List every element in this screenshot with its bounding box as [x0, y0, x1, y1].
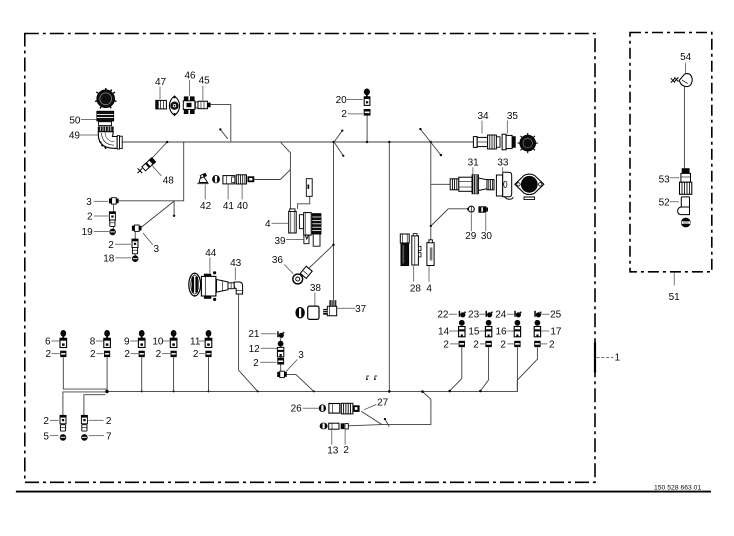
svg-text:11: 11: [190, 337, 201, 348]
wire: branch to ring terminal 36: [308, 245, 333, 269]
connector 3 (second): [132, 225, 142, 231]
fuse 28: [400, 234, 409, 266]
svg-text:51: 51: [669, 292, 681, 303]
svg-text:26: 26: [291, 404, 303, 415]
svg-text:30: 30: [481, 231, 493, 242]
svg-text:50: 50: [69, 115, 81, 126]
svg-text:48: 48: [163, 176, 175, 187]
svg-text:2: 2: [343, 445, 349, 456]
leader label 50: [69, 115, 96, 126]
svg-text:2: 2: [87, 212, 93, 223]
wire: main trunk: [122, 141, 473, 143]
leader label 47: [155, 77, 167, 100]
svg-text:4: 4: [265, 219, 271, 230]
relay 4: [427, 240, 434, 266]
connector 3 (third): [277, 371, 287, 377]
svg-text:2: 2: [124, 349, 130, 360]
svg-text:2: 2: [90, 349, 96, 360]
leader label 4: [265, 219, 288, 230]
wire: from connector 40 to harness: [254, 170, 290, 180]
svg-text:3: 3: [154, 244, 160, 255]
svg-text:36: 36: [272, 255, 284, 266]
cap nut 18: [132, 255, 139, 262]
nut for 12: [278, 341, 284, 347]
connector 31: [450, 175, 494, 194]
leader label 52: [659, 198, 679, 209]
svg-text:45: 45: [199, 76, 211, 87]
svg-text:22: 22: [437, 310, 449, 321]
leader label 2: [193, 349, 205, 360]
connector column 11/2: [205, 330, 212, 357]
svg-text:31: 31: [468, 158, 480, 169]
wire: drop from trunk to component 4: [280, 142, 290, 209]
svg-text:49: 49: [69, 131, 81, 142]
sleeve: [132, 247, 137, 253]
branch ticks at trunk node x334: [334, 131, 343, 156]
leader label 24: [495, 310, 514, 321]
leader label 2: [124, 349, 138, 360]
svg-text:3: 3: [86, 197, 92, 208]
grommet 38: [295, 306, 319, 319]
svg-text:2: 2: [341, 109, 347, 120]
breather 42: [197, 173, 208, 184]
elbow hose 49: [98, 127, 122, 149]
svg-text:52: 52: [659, 198, 671, 209]
svg-text:37: 37: [355, 304, 367, 315]
plug 30: [478, 206, 488, 212]
connector column 8/2: [104, 330, 111, 357]
wire: fuse holder tail: [298, 196, 310, 209]
connector column 23/15/2: [485, 311, 492, 347]
leader label 1 (harness): [595, 343, 621, 373]
svg-text:2: 2: [253, 358, 259, 369]
leader label 42: [200, 185, 212, 212]
leader label 2: [90, 349, 104, 360]
junction dots on trunk: [166, 141, 168, 143]
leader label 4: [426, 266, 432, 294]
svg-text:9: 9: [124, 337, 130, 348]
round plug for 35: [518, 133, 538, 153]
branch tick on 27 lead: [385, 419, 389, 427]
wire: drop to relay 4 / branch 29: [431, 142, 469, 240]
leader label 26: [291, 404, 319, 415]
cap nut 19: [109, 229, 116, 236]
plug 26 chain: [319, 403, 360, 414]
svg-text:40: 40: [237, 201, 249, 212]
connector 3: [109, 198, 119, 204]
wire: col10 drop: [173, 357, 175, 391]
wire: connector 3 drop to rail: [281, 338, 314, 391]
wire: col8 drop: [106, 357, 108, 391]
wire: col25 drop: [518, 347, 538, 380]
leader label 38: [310, 283, 322, 306]
svg-text:10: 10: [152, 337, 164, 348]
holder: [412, 234, 421, 265]
leader label 12: [249, 344, 277, 355]
housing 41: [223, 176, 235, 184]
svg-text:17: 17: [550, 326, 562, 337]
leader label 25: [541, 310, 561, 321]
wire: drop to node 3 group: [115, 142, 184, 201]
leader label 51: [669, 272, 681, 303]
leader label 40: [237, 185, 249, 212]
elbow 52: [678, 197, 690, 215]
gland 12: [277, 347, 283, 357]
svg-text:2: 2: [500, 339, 506, 350]
leader label 34: [477, 111, 489, 134]
leader label 2: [156, 349, 170, 360]
leader label 15: [468, 326, 485, 337]
svg-text:25: 25: [550, 310, 562, 321]
svg-text:5: 5: [43, 431, 49, 442]
leader label 21: [248, 329, 276, 340]
wire: bottom rail: [107, 380, 517, 391]
wire: col22 drop: [450, 347, 462, 391]
leader label 11: [190, 337, 205, 348]
plug group 2/7: [81, 415, 88, 440]
branch tick at trunk node x430: [420, 129, 441, 155]
svg-text:150 528 663 01: 150 528 663 01: [654, 484, 701, 491]
svg-text:21: 21: [248, 329, 260, 340]
svg-text:2: 2: [473, 339, 479, 350]
svg-text:13: 13: [327, 446, 339, 457]
leader label 39: [274, 236, 303, 247]
leader label 53: [659, 174, 680, 185]
svg-text:1: 1: [615, 353, 621, 364]
svg-text:53: 53: [659, 174, 671, 185]
svg-text:54: 54: [680, 52, 692, 63]
leader label 20: [336, 95, 363, 106]
leader label 27: [364, 398, 389, 410]
connector 45: [198, 101, 211, 109]
leader label 2: [43, 416, 58, 427]
sensor cap 20: [364, 89, 370, 106]
leader label 3: [86, 197, 108, 208]
leader label 2: [108, 240, 131, 251]
svg-text:34: 34: [477, 111, 489, 122]
wire: branch to 48: [150, 142, 167, 160]
round plug of connector 50: [95, 88, 116, 109]
svg-text:27: 27: [377, 398, 389, 409]
leader label 6: [45, 337, 60, 348]
leader label 45: [199, 76, 211, 101]
connector 53: [680, 168, 692, 194]
leader label 14: [438, 326, 458, 337]
bottom title rule: [16, 491, 711, 493]
leader label 17: [541, 326, 562, 337]
svg-text:16: 16: [495, 326, 507, 337]
svg-text:39: 39: [274, 236, 286, 247]
svg-text:44: 44: [205, 248, 217, 259]
leader label 7: [89, 431, 112, 442]
wire: drop from 20 group to trunk: [366, 115, 368, 142]
svg-text:2: 2: [443, 339, 449, 350]
svg-text:2: 2: [108, 240, 114, 251]
wire: drop to plug 7: [84, 395, 106, 416]
svg-text:18: 18: [103, 253, 115, 264]
leader label 2: [89, 416, 112, 427]
clip marks above rail: [367, 376, 377, 379]
cable to 53: [683, 87, 685, 168]
main harness boundary frame (dash-dot): [25, 34, 595, 483]
wire: col24 drop: [516, 347, 518, 391]
leader label 16: [495, 326, 514, 337]
wire: col6 feed into rail node: [63, 357, 107, 389]
wire: connector 27 lead to rail: [361, 392, 431, 425]
svg-text:3: 3: [298, 350, 304, 361]
svg-text:15: 15: [468, 326, 480, 337]
connector 47: [156, 100, 167, 109]
svg-text:20: 20: [336, 95, 348, 106]
connector column 10/2: [170, 330, 177, 357]
branch tick near node 45 junction: [220, 129, 227, 138]
leader label 31: [468, 158, 480, 175]
svg-text:6: 6: [45, 337, 51, 348]
plug group 2/5: [60, 415, 67, 440]
connector column 9/2: [138, 330, 145, 357]
leader label 2: [253, 358, 276, 369]
solenoid 4: [289, 209, 312, 235]
svg-text:35: 35: [507, 111, 519, 122]
nut 2 under 20: [364, 109, 371, 116]
svg-text:19: 19: [82, 227, 94, 238]
svg-text:2: 2: [43, 416, 49, 427]
wire stubs in 3/2/19 column: [113, 204, 115, 229]
wire: long drop to bottom rail: [388, 142, 390, 391]
connector column 22/14/2: [459, 311, 466, 347]
leader label 30: [481, 213, 493, 242]
leader label 2: [473, 339, 485, 350]
lamp socket 44: [189, 273, 201, 297]
svg-text:33: 33: [497, 158, 509, 169]
connector 34: [473, 135, 500, 149]
flange connector 46: [169, 96, 179, 115]
leader label 3: [143, 233, 160, 255]
leader label 2: [443, 339, 458, 350]
right option box frame (dash-dot): [630, 33, 712, 272]
cable tie 48: [141, 157, 155, 171]
svg-text:2: 2: [193, 349, 199, 360]
wire stubs: [134, 231, 136, 256]
leader label 28: [410, 266, 422, 294]
leader label 35: [507, 111, 519, 134]
clamp 29: [467, 206, 474, 212]
wire: drop to plug 5: [63, 392, 107, 415]
svg-text:2: 2: [46, 349, 52, 360]
clip 21: [277, 331, 284, 338]
leader label 36: [272, 255, 293, 274]
leader label 22: [437, 310, 457, 321]
svg-text:4: 4: [426, 283, 432, 294]
leader label 3: [286, 350, 304, 372]
svg-text:29: 29: [465, 231, 477, 242]
leader label 29: [465, 213, 477, 242]
svg-text:2: 2: [156, 349, 162, 360]
svg-text:42: 42: [200, 201, 212, 212]
leader label 19: [82, 227, 109, 238]
connector column 25/17/2: [534, 311, 541, 347]
svg-text:12: 12: [249, 344, 261, 355]
sleeve: [110, 220, 115, 226]
leader label 8: [90, 337, 104, 348]
svg-text:28: 28: [410, 283, 422, 294]
nut 2: [132, 239, 138, 247]
socket barrel 43: [217, 280, 235, 293]
leader label 44: [205, 248, 217, 273]
leader label 2: [87, 212, 108, 223]
ring terminal 36: [293, 266, 312, 284]
cap 50: [97, 111, 114, 125]
svg-text:41: 41: [223, 201, 235, 212]
leader label 13: [327, 430, 339, 457]
leader label 33: [497, 158, 509, 175]
leader label 9: [124, 337, 138, 348]
svg-text:47: 47: [155, 77, 167, 88]
leader label 2: [343, 430, 349, 456]
connector 40: [236, 175, 254, 184]
leader label 43: [230, 258, 242, 280]
svg-text:23: 23: [468, 310, 480, 321]
bulb housing: [201, 271, 216, 301]
connector column 24/16/2: [514, 311, 521, 347]
svg-text:2: 2: [106, 416, 112, 427]
svg-text:46: 46: [184, 70, 196, 81]
elbow fitting 37: [323, 300, 336, 316]
plug 13 chain: [320, 423, 349, 430]
leader label 18: [103, 253, 131, 264]
leader label 5: [43, 431, 58, 442]
wire: link from 13 chain: [348, 425, 382, 426]
svg-text:14: 14: [438, 326, 450, 337]
wire: col11 drop: [208, 357, 210, 391]
wire: col23 drop: [480, 347, 488, 391]
wire: col9 drop: [141, 357, 143, 391]
connector column 6/2: [60, 330, 67, 357]
leader label 2: [46, 349, 60, 360]
elbow 43: [234, 282, 242, 294]
leader label 2: [541, 339, 555, 350]
leader label 49: [69, 131, 98, 142]
svg-text:2: 2: [549, 339, 555, 350]
nut 2: [109, 212, 115, 220]
seal: [212, 175, 220, 183]
leader label 2: [500, 339, 514, 350]
leader label 48: [152, 165, 174, 186]
junction dots on rail: [105, 390, 108, 393]
svg-text:24: 24: [495, 310, 507, 321]
nozzle 54: [671, 74, 692, 87]
leader label 37: [337, 304, 366, 315]
leader label 10: [152, 337, 170, 348]
wire: stub with dot: [173, 201, 175, 215]
svg-text:43: 43: [230, 258, 242, 269]
leader label 46: [184, 70, 196, 96]
connector 35: [502, 134, 516, 150]
nut 2: [277, 358, 284, 365]
leader label 41: [223, 185, 235, 212]
wire: branch from 45 down to trunk: [211, 105, 231, 142]
leader label 23: [468, 310, 485, 321]
valve body 45 group: [183, 96, 198, 114]
wire: branch to connector 31: [431, 183, 450, 185]
wire: elbow 43 drop to rail: [239, 294, 258, 392]
svg-text:38: 38: [310, 283, 322, 294]
wire: diagonal to second 3 connector: [141, 201, 175, 228]
bracket 33: [496, 172, 513, 199]
svg-text:7: 7: [106, 431, 112, 442]
wire: long drop to elbow 37: [333, 142, 335, 300]
fuse holder: [306, 179, 312, 197]
leader label 54: [680, 52, 692, 73]
coil 39: [304, 214, 321, 247]
svg-text:8: 8: [90, 337, 96, 348]
cap nut below 52: [681, 218, 691, 228]
flange socket for 33: [515, 174, 544, 200]
leader label 2: [341, 109, 363, 120]
